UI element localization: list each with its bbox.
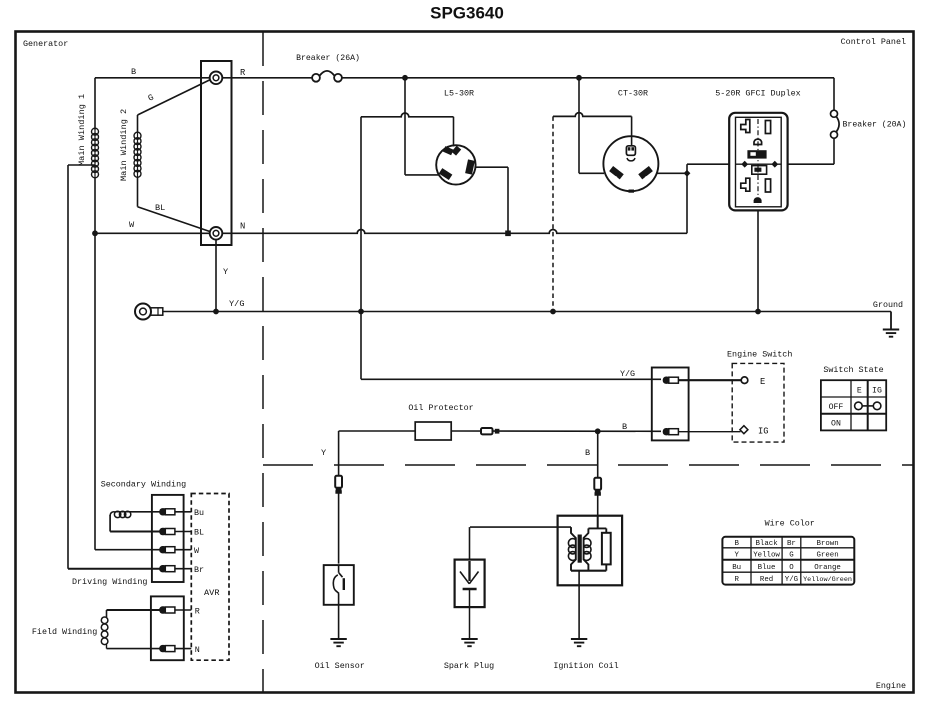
svg-text:R: R <box>195 607 200 617</box>
svg-text:Bu: Bu <box>732 564 741 572</box>
svg-text:Y/G: Y/G <box>620 369 635 379</box>
svg-text:Wire Color: Wire Color <box>765 519 815 529</box>
svg-text:B: B <box>734 540 739 548</box>
svg-text:Black: Black <box>755 540 778 548</box>
svg-text:Br: Br <box>194 565 204 575</box>
svg-text:ON: ON <box>831 420 841 429</box>
svg-text:BL: BL <box>155 203 165 213</box>
svg-text:IG: IG <box>758 427 769 437</box>
svg-text:Yellow/Green: Yellow/Green <box>803 576 852 584</box>
svg-text:Brown: Brown <box>816 540 838 548</box>
svg-text:Driving Winding: Driving Winding <box>72 577 147 587</box>
svg-text:Control Panel: Control Panel <box>841 37 906 47</box>
svg-text:Oil Sensor: Oil Sensor <box>315 661 365 671</box>
svg-text:Spark Plug: Spark Plug <box>444 661 494 671</box>
svg-text:Y: Y <box>321 448 326 458</box>
svg-text:Ignition Coil: Ignition Coil <box>553 661 618 671</box>
svg-text:B: B <box>622 422 627 432</box>
svg-text:Bu: Bu <box>194 508 204 518</box>
svg-text:Main Winding 2: Main Winding 2 <box>119 109 129 181</box>
svg-text:R: R <box>240 68 246 78</box>
svg-text:OFF: OFF <box>829 403 844 412</box>
svg-text:Orange: Orange <box>814 564 841 572</box>
svg-text:Engine: Engine <box>876 681 906 691</box>
svg-text:Y/G: Y/G <box>229 299 244 309</box>
svg-text:Y/G: Y/G <box>785 576 798 584</box>
svg-text:Generator: Generator <box>23 39 68 49</box>
svg-text:Breaker (26A): Breaker (26A) <box>296 53 360 63</box>
svg-text:AVR: AVR <box>204 588 219 598</box>
svg-text:W: W <box>129 220 135 230</box>
svg-text:B: B <box>131 67 136 77</box>
svg-text:B: B <box>585 448 590 458</box>
svg-text:G: G <box>789 552 793 560</box>
svg-text:Breaker (20A): Breaker (20A) <box>843 120 907 130</box>
svg-text:E: E <box>857 386 862 395</box>
svg-text:BL: BL <box>194 528 204 538</box>
svg-text:IG: IG <box>872 386 882 395</box>
svg-text:O: O <box>789 564 794 572</box>
svg-text:N: N <box>195 645 200 655</box>
svg-text:Yellow: Yellow <box>753 552 780 560</box>
svg-text:Y: Y <box>223 267 228 277</box>
svg-text:5-20R GFCI Duplex: 5-20R GFCI Duplex <box>715 89 800 99</box>
svg-text:Main Winding 1: Main Winding 1 <box>77 94 87 166</box>
svg-text:Switch State: Switch State <box>823 365 883 375</box>
svg-text:SPG3640: SPG3640 <box>430 4 504 23</box>
svg-text:R: R <box>734 576 739 584</box>
svg-text:Field Winding: Field Winding <box>32 627 97 637</box>
svg-text:E: E <box>760 377 765 387</box>
svg-text:Oil Protector: Oil Protector <box>408 403 473 413</box>
svg-text:L5-30R: L5-30R <box>444 89 474 99</box>
svg-text:Ground: Ground <box>873 300 903 310</box>
svg-text:Green: Green <box>816 552 838 560</box>
svg-text:Red: Red <box>760 576 773 584</box>
svg-text:Br: Br <box>787 540 796 548</box>
svg-text:Secondary Winding: Secondary Winding <box>101 480 186 490</box>
svg-text:Y: Y <box>734 552 739 560</box>
svg-text:N: N <box>240 222 245 232</box>
svg-text:Blue: Blue <box>758 564 776 572</box>
svg-text:Engine Switch: Engine Switch <box>727 350 792 360</box>
svg-text:CT-30R: CT-30R <box>618 89 648 99</box>
